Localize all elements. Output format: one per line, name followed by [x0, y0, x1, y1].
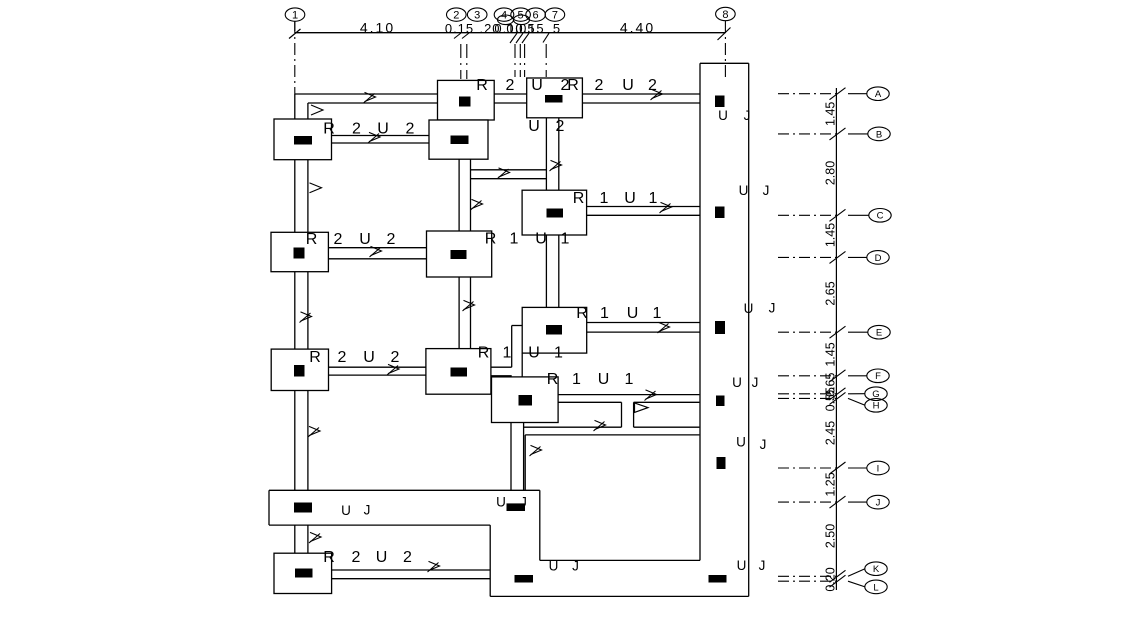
- svg-text:J: J: [752, 375, 759, 390]
- svg-text:R: R: [485, 231, 497, 248]
- svg-text:2: 2: [352, 549, 361, 566]
- svg-text:2: 2: [391, 349, 400, 366]
- svg-text:0.15: 0.15: [445, 21, 474, 36]
- svg-text:2: 2: [648, 77, 657, 94]
- svg-text:U: U: [549, 559, 559, 574]
- svg-text:1: 1: [510, 231, 519, 248]
- svg-text:R: R: [323, 121, 335, 138]
- svg-text:6: 6: [533, 10, 539, 22]
- svg-text:R: R: [576, 305, 588, 322]
- svg-text:2: 2: [506, 77, 515, 94]
- svg-text:J: J: [759, 558, 766, 573]
- svg-text:7: 7: [552, 10, 558, 22]
- svg-text:U: U: [528, 118, 540, 135]
- svg-text:0.55: 0.55: [824, 387, 838, 411]
- svg-text:1: 1: [561, 231, 570, 248]
- svg-text:2.65: 2.65: [824, 281, 838, 305]
- svg-text:R: R: [323, 549, 335, 566]
- svg-text:U: U: [718, 108, 728, 123]
- svg-text:2.50: 2.50: [824, 524, 838, 548]
- svg-text:1: 1: [292, 10, 298, 22]
- svg-text:U: U: [737, 558, 747, 573]
- svg-text:J: J: [760, 437, 767, 452]
- svg-text:1: 1: [653, 305, 662, 322]
- svg-text:1: 1: [554, 345, 563, 362]
- svg-text:U: U: [732, 375, 742, 390]
- svg-text:2: 2: [556, 118, 565, 135]
- svg-text:U: U: [739, 183, 749, 198]
- svg-text:J: J: [763, 183, 770, 198]
- svg-text:3: 3: [474, 10, 480, 22]
- svg-text:1: 1: [503, 345, 512, 362]
- svg-text:B: B: [876, 129, 882, 140]
- svg-text:2: 2: [387, 231, 396, 248]
- svg-text:4: 4: [501, 10, 507, 22]
- svg-text:4.40: 4.40: [620, 20, 655, 36]
- svg-text:U: U: [531, 77, 543, 94]
- svg-text:R: R: [567, 77, 579, 94]
- svg-text:2: 2: [334, 231, 343, 248]
- svg-text:1.45: 1.45: [824, 342, 838, 366]
- svg-text:U: U: [736, 435, 746, 450]
- svg-text:R: R: [478, 345, 490, 362]
- svg-text:4.10: 4.10: [360, 20, 395, 36]
- svg-text:2: 2: [403, 549, 412, 566]
- svg-text:U: U: [376, 549, 388, 566]
- svg-text:J: J: [769, 301, 776, 316]
- svg-text:L: L: [873, 582, 878, 593]
- svg-text:5: 5: [553, 21, 561, 36]
- svg-text:A: A: [875, 89, 882, 100]
- svg-text:U: U: [377, 121, 389, 138]
- svg-text:R: R: [547, 371, 559, 388]
- svg-text:E: E: [876, 328, 882, 339]
- svg-text:J: J: [520, 495, 527, 510]
- svg-text:2: 2: [338, 349, 347, 366]
- svg-text:1.45: 1.45: [824, 223, 838, 247]
- svg-text:H: H: [873, 401, 880, 412]
- svg-text:U: U: [535, 231, 547, 248]
- svg-text:1: 1: [572, 371, 581, 388]
- svg-text:1: 1: [649, 190, 658, 207]
- svg-text:U: U: [496, 495, 506, 510]
- svg-text:U: U: [627, 305, 639, 322]
- svg-text:C: C: [877, 211, 884, 222]
- svg-text:0.15: 0.15: [515, 21, 544, 36]
- svg-text:J: J: [572, 559, 579, 574]
- svg-text:2: 2: [352, 121, 361, 138]
- svg-text:U: U: [622, 77, 634, 94]
- svg-text:2: 2: [406, 121, 415, 138]
- svg-text:8: 8: [722, 9, 728, 21]
- svg-text:R: R: [573, 190, 585, 207]
- svg-text:U: U: [624, 190, 636, 207]
- svg-text:J: J: [364, 503, 371, 518]
- svg-text:R: R: [476, 77, 488, 94]
- svg-text:U: U: [359, 231, 371, 248]
- svg-text:U: U: [744, 301, 754, 316]
- svg-text:I: I: [877, 463, 880, 474]
- svg-text:K: K: [873, 564, 880, 575]
- svg-text:1.45: 1.45: [824, 102, 838, 126]
- svg-text:1: 1: [625, 371, 634, 388]
- svg-text:J: J: [744, 108, 751, 123]
- svg-text:D: D: [875, 253, 882, 264]
- svg-text:5: 5: [518, 10, 524, 22]
- svg-text:R: R: [309, 349, 321, 366]
- svg-text:J: J: [876, 498, 881, 509]
- svg-text:1: 1: [600, 305, 609, 322]
- svg-text:R: R: [306, 231, 318, 248]
- svg-text:U: U: [363, 349, 375, 366]
- svg-text:F: F: [875, 371, 881, 382]
- svg-text:2.80: 2.80: [824, 161, 838, 185]
- svg-text:2: 2: [595, 77, 604, 94]
- svg-text:U: U: [528, 345, 540, 362]
- svg-text:U: U: [598, 371, 610, 388]
- svg-text:1: 1: [600, 190, 609, 207]
- svg-text:2: 2: [453, 10, 459, 22]
- svg-text:U: U: [341, 503, 351, 518]
- svg-text:0.20: 0.20: [824, 567, 838, 591]
- svg-text:2.45: 2.45: [824, 421, 838, 445]
- svg-text:1.25: 1.25: [824, 472, 838, 496]
